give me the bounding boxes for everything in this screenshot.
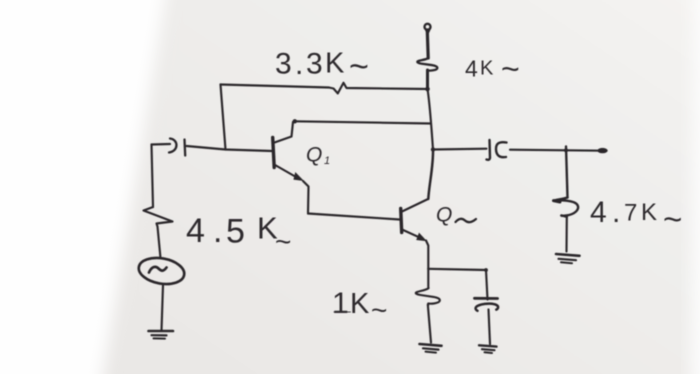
svg-text:~: ~ bbox=[371, 295, 387, 326]
svg-text:1: 1 bbox=[332, 287, 349, 320]
svg-text:3: 3 bbox=[306, 48, 323, 81]
svg-text:.: . bbox=[612, 196, 620, 229]
svg-text:.: . bbox=[295, 48, 303, 81]
svg-text:~: ~ bbox=[501, 51, 520, 87]
svg-text:4: 4 bbox=[590, 196, 607, 229]
svg-text:3: 3 bbox=[275, 48, 292, 81]
svg-text:1: 1 bbox=[324, 155, 330, 167]
svg-text:Q: Q bbox=[306, 144, 322, 167]
svg-text:4: 4 bbox=[186, 212, 205, 250]
svg-text:K: K bbox=[350, 288, 370, 320]
svg-text:~: ~ bbox=[349, 48, 369, 86]
svg-text:Q: Q bbox=[436, 204, 452, 227]
svg-text:7: 7 bbox=[624, 200, 637, 227]
svg-text:~: ~ bbox=[275, 226, 291, 257]
svg-text:.: . bbox=[213, 212, 222, 250]
svg-text:K: K bbox=[641, 199, 657, 226]
svg-text:~: ~ bbox=[663, 201, 682, 238]
svg-text:K: K bbox=[480, 58, 494, 80]
svg-text:4: 4 bbox=[465, 56, 478, 82]
svg-text:5: 5 bbox=[226, 213, 245, 251]
svg-text:K: K bbox=[325, 48, 345, 80]
